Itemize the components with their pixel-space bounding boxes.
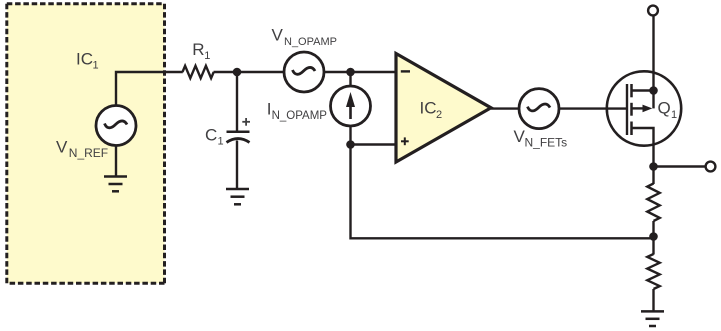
wire: R1 to V_N_OPAMP — [214, 71, 285, 73]
ground (divider) — [641, 311, 664, 326]
dashed region box (reference-noise model) — [7, 4, 165, 283]
wire: C1 to ground — [236, 141, 238, 190]
capacitor C1 — [227, 132, 250, 143]
wire: I_N_OPAMP to plus node — [349, 126, 351, 145]
svg-text:1: 1 — [218, 136, 224, 148]
resistor R1 — [183, 66, 214, 78]
current source I_N_OPAMP — [331, 86, 371, 126]
svg-text:1: 1 — [204, 50, 210, 62]
node: minus input / I_N_OPAMP top — [346, 68, 355, 77]
svg-text:2: 2 — [436, 109, 442, 121]
voltage source V_N_REF — [96, 106, 136, 146]
drain junction dot — [649, 86, 658, 95]
svg-text:N_REF: N_REF — [69, 146, 108, 160]
node: R1/C1 junction — [233, 68, 242, 77]
wire: V_N_OPAMP to op-amp minus input — [324, 71, 396, 73]
resistor (lower divider) — [647, 254, 659, 289]
wire: node down to C1 — [236, 72, 238, 132]
body connection with arrow — [632, 105, 653, 113]
svg-text:N_OPAMP: N_OPAMP — [272, 110, 328, 122]
ground (V_N_REF) — [104, 177, 127, 192]
terminal (drain, top) — [648, 6, 658, 16]
gate bar — [626, 84, 628, 135]
wire: op-amp output to V_N_FETs — [491, 107, 520, 109]
svg-text:IC: IC — [420, 99, 437, 118]
wire: V_N_REF source top to R1 — [116, 72, 183, 106]
voltage source V_N_OPAMP — [284, 52, 324, 92]
svg-text:IC: IC — [76, 50, 93, 69]
wire: V_N_FETs to gate — [559, 107, 627, 109]
svg-text:C: C — [205, 126, 217, 145]
feedback wire — [351, 145, 654, 239]
wire: upper resistor to midpoint node — [652, 221, 654, 237]
svg-text:V: V — [56, 138, 68, 157]
plus symbol — [401, 137, 409, 145]
body-drain tie — [652, 91, 654, 109]
voltage source V_N_FETs — [519, 89, 559, 129]
ground (C1) — [226, 189, 249, 204]
op-amp IC2 — [396, 54, 491, 163]
drain connection — [632, 89, 654, 91]
source connection — [632, 128, 654, 167]
wire: midpoint node to lower resistor — [652, 237, 654, 255]
svg-text:R: R — [192, 40, 204, 59]
transistor Q1 body circle — [607, 71, 681, 145]
svg-text:1: 1 — [93, 60, 99, 72]
minus symbol — [401, 70, 410, 72]
svg-text:N_FETs: N_FETs — [525, 135, 568, 149]
wire: lower resistor to ground — [652, 289, 654, 312]
terminal (source output, right) — [706, 162, 716, 172]
drain wire to top terminal — [652, 16, 654, 91]
plus sign (C1 polarity) — [242, 118, 250, 126]
wire: node to output terminal — [654, 165, 705, 167]
channel bar segments — [630, 84, 633, 135]
resistor (upper divider) — [647, 184, 659, 222]
svg-text:1: 1 — [671, 109, 677, 121]
node: divider midpoint — [649, 232, 658, 241]
node: source/divider junction — [649, 162, 658, 171]
wire: node to upper divider resistor — [652, 167, 654, 185]
svg-text:Q: Q — [658, 99, 671, 118]
wire: V_N_REF source bottom to ground — [115, 146, 117, 178]
svg-text:N_OPAMP: N_OPAMP — [284, 36, 337, 48]
wire: node to op-amp plus input — [351, 143, 397, 145]
node: plus input / feedback junction — [346, 140, 355, 149]
wire: node to I_N_OPAMP — [349, 72, 351, 87]
svg-text:V: V — [272, 25, 284, 44]
